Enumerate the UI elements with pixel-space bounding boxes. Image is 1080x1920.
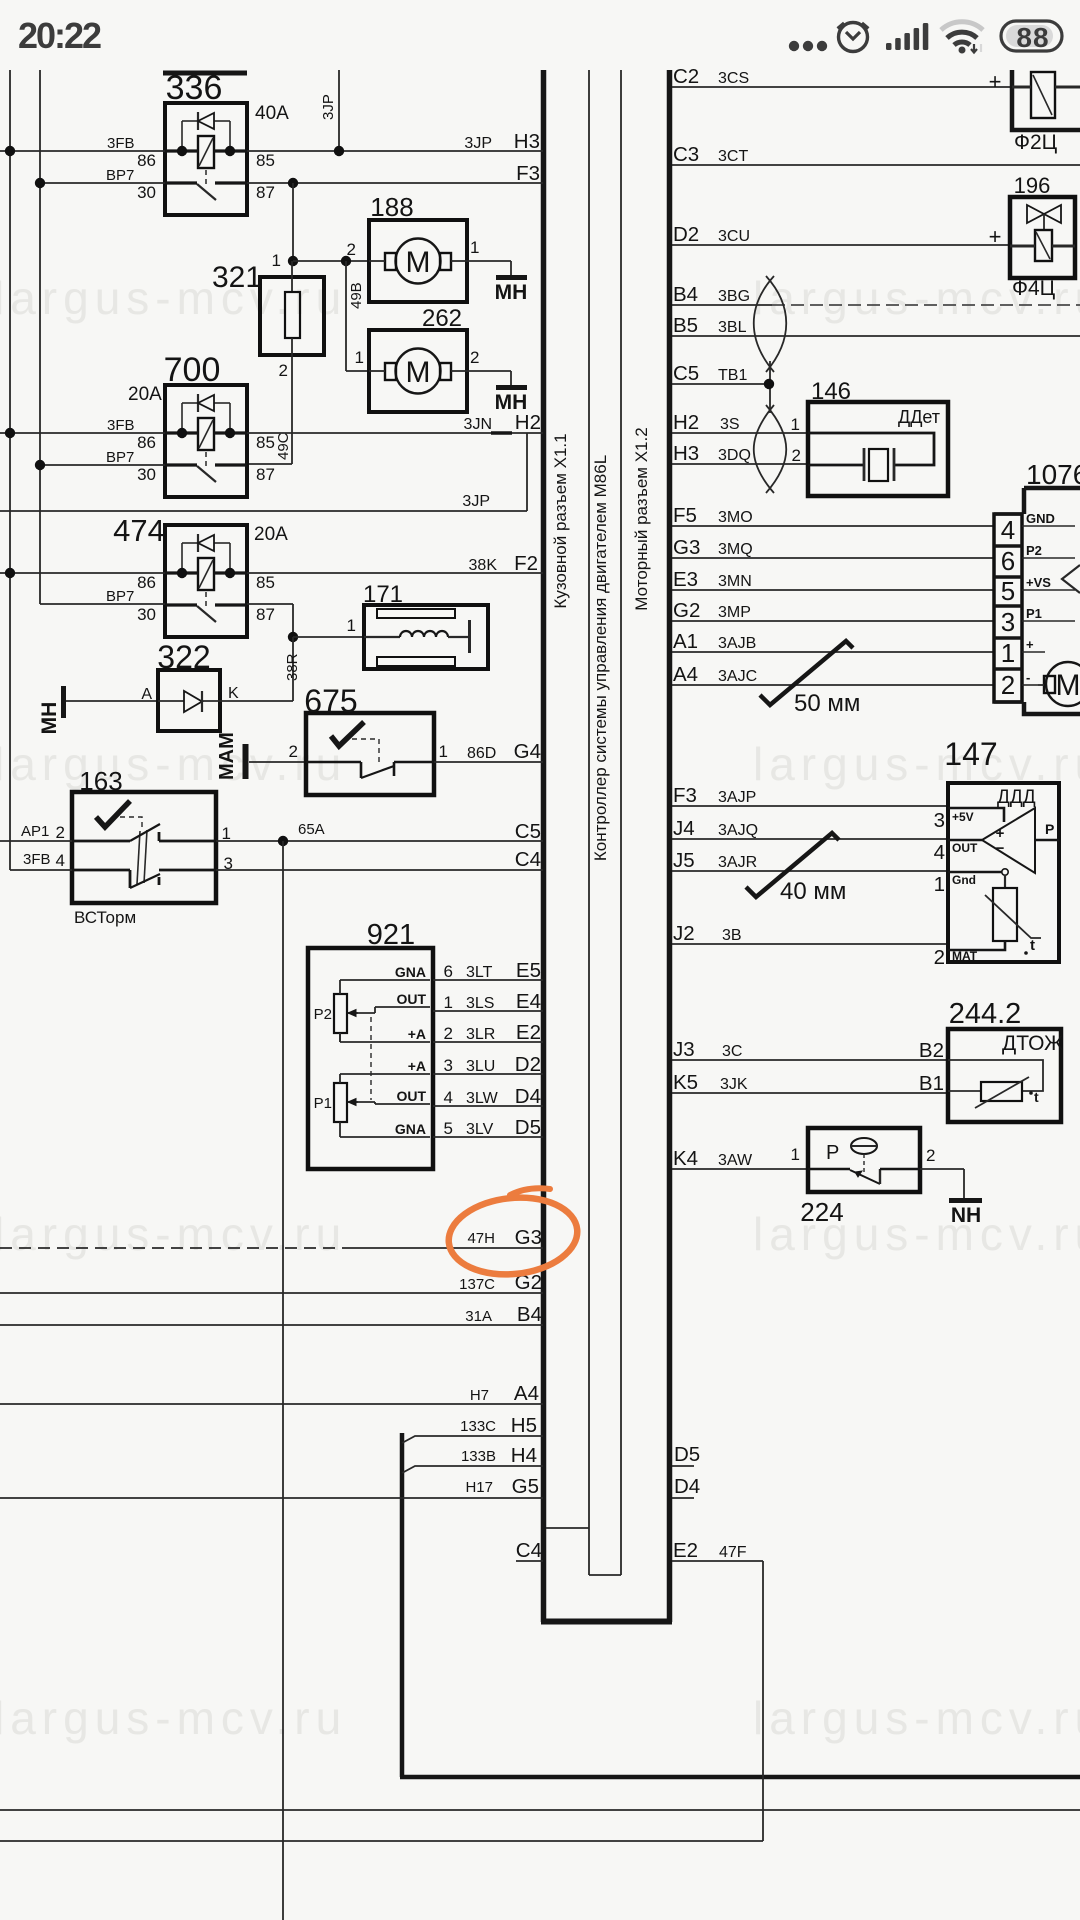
valve 196 box xyxy=(1010,197,1075,278)
switch 675 box xyxy=(306,713,434,795)
244.2 internal B1 lead xyxy=(948,1090,981,1092)
bottom long wire 1 xyxy=(0,1809,1080,1811)
svg-text:B5: B5 xyxy=(673,314,698,337)
svg-text:OUT: OUT xyxy=(396,1088,426,1104)
wire X1.2 A1 (3AJB) xyxy=(672,651,994,653)
svg-text:50 мм: 50 мм xyxy=(794,690,860,717)
sensor 244.2 box xyxy=(948,1029,1061,1122)
svg-text:−: − xyxy=(996,840,1005,857)
svg-text:+A: +A xyxy=(408,1058,426,1074)
244.2 thermistor xyxy=(981,1082,1022,1101)
svg-text:3FB: 3FB xyxy=(107,135,135,152)
svg-text:86D: 86D xyxy=(467,745,496,762)
224 membrane symbol xyxy=(851,1138,877,1154)
svg-text:C2: C2 xyxy=(673,65,699,88)
connector bar X1.2 (Моторный разъем) xyxy=(667,70,673,1622)
svg-text:H17: H17 xyxy=(465,1479,493,1496)
relay 336 switch blade xyxy=(197,184,216,200)
svg-text:87: 87 xyxy=(256,183,275,202)
wire relay474 pin87 jog to 38R node xyxy=(247,603,293,605)
svg-text:3: 3 xyxy=(934,809,945,832)
wire 3FB to relay 474 pin86 xyxy=(0,572,165,574)
1076 pin 5 xyxy=(994,575,1022,579)
svg-text:-: - xyxy=(1026,670,1030,685)
wire H7 to X1.1 A4 xyxy=(0,1403,543,1405)
svg-text:3JP: 3JP xyxy=(462,493,490,510)
svg-text:+5V: +5V xyxy=(952,810,974,824)
svg-text:3LT: 3LT xyxy=(466,964,493,981)
svg-text:K: K xyxy=(228,685,239,702)
svg-text:Кузовной разъем X1.1: Кузовной разъем X1.1 xyxy=(551,433,570,608)
svg-text:F3: F3 xyxy=(673,784,697,807)
node motor feed left xyxy=(288,256,298,266)
svg-text:3LW: 3LW xyxy=(466,1090,499,1107)
svg-text:3CU: 3CU xyxy=(718,228,750,245)
svg-text:G4: G4 xyxy=(514,740,541,763)
146 internal path pin1 xyxy=(808,433,934,465)
svg-text:1: 1 xyxy=(355,348,364,367)
322 wire through xyxy=(158,700,184,702)
svg-text:F5: F5 xyxy=(673,504,697,527)
svg-text:3AJR: 3AJR xyxy=(718,854,757,871)
147 internal Gnd lead xyxy=(948,871,1002,874)
wire BP7 rail corner to relay474 pin30 xyxy=(40,603,165,605)
svg-text:86: 86 xyxy=(137,573,156,592)
status bar battery xyxy=(1001,21,1062,51)
node TB1 xyxy=(764,379,774,389)
svg-text:t: t xyxy=(1030,937,1035,954)
svg-text:P2: P2 xyxy=(314,1006,332,1023)
svg-text:675: 675 xyxy=(304,683,357,719)
svg-text:336: 336 xyxy=(166,69,223,107)
3FB rail vertical xyxy=(9,70,11,869)
svg-text:3MQ: 3MQ xyxy=(718,541,753,558)
svg-text:E2: E2 xyxy=(516,1021,541,1044)
svg-text:3CS: 3CS xyxy=(718,70,749,87)
node 65A xyxy=(278,836,288,846)
1076 pin 2 xyxy=(994,667,1022,671)
921 P2 potentiometer xyxy=(334,994,347,1033)
wire 921 pin2 to X1.1 E2 (3LR) xyxy=(433,1041,543,1043)
wire 921 pin1 to X1.1 E4 (3LS) xyxy=(433,1010,543,1012)
1076 pin 3 xyxy=(994,604,1022,608)
BP7 rail vertical xyxy=(39,70,41,604)
svg-text:40A: 40A xyxy=(255,103,289,124)
wire relay336 pin87 to X1.1 F3 xyxy=(247,182,543,184)
163 plunger lines xyxy=(137,831,140,884)
147 internal +5V lead xyxy=(948,808,1004,822)
svg-text:4: 4 xyxy=(934,841,945,864)
146 internal path pin2 xyxy=(808,464,864,467)
svg-text:3: 3 xyxy=(444,1056,453,1075)
svg-text:224: 224 xyxy=(800,1197,843,1227)
wire X1.2 H3 (3DQ) xyxy=(672,463,808,465)
wire 921 pin4 to X1.1 D4 (3LW) xyxy=(433,1105,543,1107)
wire motor262 pin2 to ground xyxy=(467,370,511,372)
wire X1.2 J4 (3AJQ) xyxy=(672,838,948,840)
wire X1.2 E3 (3MN) xyxy=(672,589,994,591)
svg-text:G5: G5 xyxy=(512,1475,539,1498)
node 3FB-700 xyxy=(5,428,15,438)
wire X1.2 G3 (3MQ) xyxy=(672,557,994,559)
relay 700 switch blade xyxy=(197,466,216,482)
wire X1.2 H2 (3S) xyxy=(672,432,808,434)
921 P2 wiper xyxy=(348,1012,358,1014)
wire X1.2 C5 (TB1) xyxy=(672,383,769,385)
svg-text:МАМ: МАМ xyxy=(216,732,238,780)
svg-text:J2: J2 xyxy=(673,922,695,945)
163 check mark xyxy=(96,801,130,827)
controller stub to X1.1 xyxy=(546,1527,589,1529)
wire X1.2 D2 (3CU) xyxy=(672,244,1010,246)
svg-text:M: M xyxy=(406,356,431,389)
wire X1.2 B4 (3BG) xyxy=(672,304,772,306)
svg-text:E3: E3 xyxy=(673,568,698,591)
3JP drop wire vertical xyxy=(338,70,340,151)
svg-text:H2: H2 xyxy=(673,411,699,434)
svg-text:3LR: 3LR xyxy=(466,1026,495,1043)
svg-text:A4: A4 xyxy=(673,663,698,686)
svg-text:D5: D5 xyxy=(674,1443,700,1466)
svg-text:3AW: 3AW xyxy=(718,1152,753,1169)
svg-text:3MN: 3MN xyxy=(718,573,752,590)
svg-text:Ф4Ц: Ф4Ц xyxy=(1012,277,1056,300)
relay 474 coil + diode internals xyxy=(181,543,183,573)
wire 47H (dashed) to X1.1 G3 xyxy=(0,1247,348,1249)
svg-text:85: 85 xyxy=(256,573,275,592)
svg-text:65A: 65A xyxy=(298,821,325,838)
relay 474 box xyxy=(165,525,247,637)
svg-text:30: 30 xyxy=(137,605,156,624)
163 dashed link xyxy=(120,817,142,831)
wire MH to 322 anode xyxy=(66,700,158,702)
svg-text:P: P xyxy=(1045,821,1054,837)
wire 137C to X1.1 G2 xyxy=(0,1292,543,1294)
svg-text:H5: H5 xyxy=(511,1414,537,1437)
1076 pin 4 xyxy=(994,512,1022,516)
wire X1.2 A4 (3AJC) xyxy=(672,684,994,686)
svg-text:321: 321 xyxy=(212,261,262,294)
svg-text:GNA: GNA xyxy=(395,964,426,980)
146 piezo element xyxy=(869,449,888,481)
svg-text:H3: H3 xyxy=(514,130,540,153)
wire 3FB rail to 163 pin4 xyxy=(9,869,11,870)
svg-text:МН: МН xyxy=(38,702,61,735)
svg-text:38K: 38K xyxy=(469,557,498,574)
921 wiper coupling dashed xyxy=(370,1017,372,1100)
svg-text:31A: 31A xyxy=(465,1308,492,1325)
svg-text:5: 5 xyxy=(1001,576,1015,606)
svg-text:OUT: OUT xyxy=(952,841,978,855)
svg-text:4: 4 xyxy=(56,851,65,870)
svg-text:20:22: 20:22 xyxy=(18,15,101,56)
svg-text:1: 1 xyxy=(439,742,448,761)
svg-text:GNA: GNA xyxy=(395,1121,426,1137)
wire 3FB to relay 336 pin86 xyxy=(0,150,165,152)
svg-text:4: 4 xyxy=(444,1088,453,1107)
svg-text:C4: C4 xyxy=(515,848,541,871)
node 49B branch xyxy=(341,256,351,266)
node 3FB-336 xyxy=(5,146,15,156)
wire 38R down to diode 322 xyxy=(292,637,294,701)
svg-text:244.2: 244.2 xyxy=(949,998,1022,1030)
svg-text:1: 1 xyxy=(222,824,231,843)
wire AP1 to 163 pin2 xyxy=(0,840,72,842)
svg-text:86: 86 xyxy=(137,433,156,452)
wire 163 pin3 to X1.1 C4 xyxy=(216,869,543,871)
svg-text:3LU: 3LU xyxy=(466,1058,495,1075)
bus thick vertical xyxy=(400,1433,405,1777)
171 coil xyxy=(364,636,400,638)
224 switch contacts xyxy=(808,1168,850,1170)
svg-text:BP7: BP7 xyxy=(106,449,134,466)
sensor 147 box xyxy=(948,783,1059,962)
svg-text:largus-mcv.ru: largus-mcv.ru xyxy=(0,1692,347,1744)
controller inner box M86L left line xyxy=(588,70,590,1575)
wire 133B to X1.1 H4 xyxy=(402,1466,543,1473)
bottom long wire 2 xyxy=(0,1840,763,1842)
svg-text:E2: E2 xyxy=(673,1539,698,1562)
block 1076 pin strip xyxy=(994,514,1022,702)
svg-text:1: 1 xyxy=(934,873,945,896)
svg-text:1: 1 xyxy=(444,993,453,1012)
wire X1.2 C2 (3CS) xyxy=(672,86,1012,88)
svg-text:3JN: 3JN xyxy=(464,416,492,433)
wire 65A node down the page xyxy=(282,841,284,1920)
svg-text:87: 87 xyxy=(256,605,275,624)
svg-text:МН: МН xyxy=(495,281,528,304)
node 38R xyxy=(288,632,298,642)
svg-text:2: 2 xyxy=(279,361,288,380)
322 diode symbol xyxy=(184,691,202,712)
svg-text:474: 474 xyxy=(113,513,165,548)
svg-text:3: 3 xyxy=(1001,607,1015,637)
svg-text:B1: B1 xyxy=(919,1072,944,1095)
147 internal OUT lead xyxy=(948,839,982,842)
svg-text:700: 700 xyxy=(164,351,221,389)
svg-text:AP1: AP1 xyxy=(21,823,49,840)
twisted pair lens upper (B4/B5) xyxy=(766,276,786,372)
svg-text:30: 30 xyxy=(137,465,156,484)
pin splice mark H2 row xyxy=(491,431,512,434)
svg-text:2: 2 xyxy=(792,446,801,465)
solenoid Ф2Ц box (cut at top) xyxy=(1012,70,1080,130)
svg-text:3LS: 3LS xyxy=(466,995,494,1012)
svg-text:BP7: BP7 xyxy=(106,588,134,605)
sensor 146 box xyxy=(808,402,948,496)
svg-text:A1: A1 xyxy=(673,630,698,653)
wire 675 pin1 to X1.1 G4 (86D) xyxy=(434,761,543,763)
svg-text:20A: 20A xyxy=(128,384,162,405)
wire 31A to X1.1 B4 xyxy=(0,1324,543,1326)
svg-text:C3: C3 xyxy=(673,143,699,166)
wire MAM to 675 pin2 xyxy=(249,761,306,763)
svg-text:2: 2 xyxy=(289,742,298,761)
svg-text:2: 2 xyxy=(470,348,479,367)
wire 3BG dashed continuation xyxy=(772,304,1080,306)
svg-text:1: 1 xyxy=(272,251,281,270)
svg-text:1: 1 xyxy=(791,1145,800,1164)
svg-text:largus-mcv.ru: largus-mcv.ru xyxy=(753,1692,1080,1744)
svg-text:921: 921 xyxy=(367,919,415,951)
svg-text:3AJB: 3AJB xyxy=(718,635,756,652)
svg-text:BP7: BP7 xyxy=(106,167,134,184)
wire X1.2 B5 (3BL) xyxy=(672,335,1080,337)
relay 336 coil + diode internals xyxy=(181,121,183,151)
svg-text:322: 322 xyxy=(157,639,210,675)
wire X1.2 K5 (3JK) xyxy=(672,1092,948,1094)
wire motor188 pin1 to ground xyxy=(467,260,511,262)
1076 pin 1 xyxy=(994,636,1022,640)
svg-text:K4: K4 xyxy=(673,1147,698,1170)
wire E2 47F down and left xyxy=(672,1560,763,1562)
svg-text:3JP: 3JP xyxy=(320,94,337,120)
svg-text:262: 262 xyxy=(422,305,462,332)
wire X1.2 C3 (3CT) xyxy=(672,164,1080,166)
svg-text:largus-mcv.ru: largus-mcv.ru xyxy=(0,272,347,324)
svg-text:3C: 3C xyxy=(722,1043,742,1060)
wire 921 pin6 to X1.1 E5 (3LT) xyxy=(433,979,543,981)
1076 pin 6 xyxy=(994,544,1022,548)
svg-text:M: M xyxy=(406,246,431,279)
wire relay336 pin85 to X1.1 H3 (3JP) xyxy=(247,150,543,152)
relay 336 box xyxy=(165,103,247,215)
196 through wire xyxy=(1010,245,1035,248)
diode 322 box xyxy=(158,670,220,731)
svg-text:1076: 1076 xyxy=(1026,459,1080,490)
svg-text:171: 171 xyxy=(363,581,403,608)
node 3FB-474 xyxy=(5,568,15,578)
196 valve bowtie xyxy=(1027,205,1044,223)
svg-text:H3: H3 xyxy=(673,442,699,465)
wire 3FB to relay 700 pin86 xyxy=(0,432,165,434)
321 lead top xyxy=(291,261,293,292)
svg-text:P1: P1 xyxy=(1026,606,1042,621)
svg-text:largus-mcv.ru: largus-mcv.ru xyxy=(0,1208,347,1260)
status bar alarm clock icon xyxy=(838,23,868,52)
svg-text:133C: 133C xyxy=(460,1418,496,1435)
svg-text:K5: K5 xyxy=(673,1071,698,1094)
wire X1.2 K4 (3AW) xyxy=(672,1168,808,1170)
163 upper contact xyxy=(72,840,130,843)
svg-text:OUT: OUT xyxy=(396,991,426,1007)
svg-text:NH: NH xyxy=(951,1204,981,1227)
node 87-336 junction xyxy=(288,178,298,188)
svg-text:3: 3 xyxy=(224,854,233,873)
svg-text:3FB: 3FB xyxy=(107,417,135,434)
wire H17 to X1.1 G5 xyxy=(0,1497,543,1499)
motor 188 symbol xyxy=(396,239,441,284)
ground MH (motor 188) xyxy=(496,275,527,280)
svg-text:196: 196 xyxy=(1014,173,1051,198)
921 P1 potentiometer xyxy=(334,1083,347,1122)
svg-text:M: M xyxy=(1056,669,1080,702)
svg-text:D2: D2 xyxy=(673,223,699,246)
1076 motor M xyxy=(1046,662,1080,706)
svg-text:163: 163 xyxy=(79,766,122,796)
svg-text:3DQ: 3DQ xyxy=(718,447,751,464)
wire X1.2 F3 (3AJP) xyxy=(672,805,948,807)
svg-text:E5: E5 xyxy=(516,959,541,982)
svg-text:5: 5 xyxy=(444,1119,453,1138)
675 check mark xyxy=(331,722,364,746)
svg-text:49C: 49C xyxy=(275,432,292,460)
svg-text:F2: F2 xyxy=(514,552,538,575)
wire 163 pin1 to X1.1 C5 (65A) xyxy=(216,840,543,842)
svg-text:GND: GND xyxy=(1026,511,1055,526)
svg-text:3CT: 3CT xyxy=(718,148,748,165)
pin C4 stub (bottom) xyxy=(516,1560,543,1562)
svg-text:Ф2Ц: Ф2Ц xyxy=(1014,131,1058,154)
svg-text:3JK: 3JK xyxy=(720,1076,748,1093)
svg-text:2: 2 xyxy=(1001,670,1015,700)
relay 700 box xyxy=(165,385,247,497)
svg-text:C5: C5 xyxy=(673,362,699,385)
svg-text:3AJC: 3AJC xyxy=(718,668,757,685)
svg-text:A: A xyxy=(141,686,152,703)
921 internal row stubs xyxy=(340,979,430,981)
921 P1 wiper xyxy=(348,1101,358,1103)
196 stem xyxy=(1043,214,1045,230)
wire 921 pin3 to X1.1 D2 (3LU) xyxy=(433,1073,543,1075)
wire 49B vertical to motor 262 pin1 xyxy=(345,261,347,371)
321 element xyxy=(285,292,300,338)
wire node to 171 pin1 xyxy=(293,636,364,638)
svg-text:+A: +A xyxy=(408,1026,426,1042)
svg-text:20A: 20A xyxy=(254,524,288,545)
svg-text:+: + xyxy=(1026,637,1034,652)
wire X1.2 J3 (3C) xyxy=(672,1059,948,1061)
wire BP7 to relay 700 pin30 xyxy=(40,464,165,466)
node BP7-336 xyxy=(35,178,45,188)
svg-text:A4: A4 xyxy=(514,1382,539,1405)
svg-text:C4: C4 xyxy=(516,1539,542,1562)
svg-text:47F: 47F xyxy=(719,1544,747,1561)
svg-text:1: 1 xyxy=(791,415,800,434)
svg-text:2: 2 xyxy=(56,823,65,842)
svg-text:ДТОЖ: ДТОЖ xyxy=(1002,1032,1064,1055)
svg-text:H2: H2 xyxy=(515,411,541,434)
wire to motor 188 pin2 xyxy=(293,260,369,262)
svg-text:Контроллер системы управления: Контроллер системы управления двигателем… xyxy=(591,455,610,861)
connector bar X1.1 (Кузовной разъем) xyxy=(541,70,547,1622)
ground MH (322) xyxy=(61,686,66,718)
svg-text:D4: D4 xyxy=(515,1085,541,1108)
svg-text:3LV: 3LV xyxy=(466,1121,494,1138)
node BP7-700 xyxy=(35,460,45,470)
motor 188 box xyxy=(369,220,467,302)
svg-text:1: 1 xyxy=(470,238,479,257)
marker 50 mm xyxy=(760,641,853,705)
1076 sensor arrow xyxy=(1062,565,1080,593)
svg-text:H4: H4 xyxy=(511,1444,537,1467)
ground MAM bar xyxy=(243,744,249,779)
block 921 box xyxy=(308,948,433,1169)
svg-text:t: t xyxy=(1034,1089,1039,1105)
svg-text:G3: G3 xyxy=(515,1226,542,1249)
wire X1.2 J2 (3B) xyxy=(672,943,948,945)
svg-text:3AJQ: 3AJQ xyxy=(718,822,758,839)
svg-text:85: 85 xyxy=(256,433,275,452)
svg-text:E4: E4 xyxy=(516,990,541,1013)
ground NH xyxy=(949,1198,982,1203)
svg-text:ВСТорм: ВСТорм xyxy=(74,908,136,927)
svg-text:40 мм: 40 мм xyxy=(780,878,846,905)
svg-text:2: 2 xyxy=(926,1146,935,1165)
wire BP7 to relay 336 pin30 xyxy=(40,182,165,184)
svg-text:+VS: +VS xyxy=(1026,575,1051,590)
146 piezo plates xyxy=(863,448,866,481)
